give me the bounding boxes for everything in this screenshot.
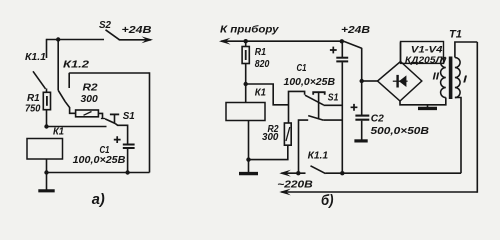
contact S1 fixed tick (101, 118, 105, 120)
node C1 top junction b (340, 39, 344, 43)
pushbutton S1 actuator a (110, 114, 119, 123)
svg-text:820: 820 (255, 59, 270, 70)
svg-text:300: 300 (262, 132, 279, 143)
svg-text:К1: К1 (53, 127, 64, 138)
svg-text:К1: К1 (255, 87, 266, 98)
svg-text:С1: С1 (297, 63, 307, 74)
relay K1 coil a (27, 139, 63, 160)
switch S2 lever (106, 30, 120, 40)
pushbutton S1 actuator b (313, 92, 325, 118)
svg-text:S1: S1 (123, 111, 135, 122)
node R1/K1/S1 junction (44, 124, 48, 128)
plus sign C1 a (114, 136, 121, 143)
node C1 bottom junction a (125, 170, 129, 174)
capacitor C2 (354, 116, 369, 141)
bridge rectifier V1-V4 diamond (378, 62, 422, 102)
resistor R1 750 (43, 92, 50, 109)
label box V1-V4 KD205L (401, 42, 444, 64)
resistor R2 300 a (76, 110, 99, 117)
node bridge left junction (360, 79, 364, 83)
ground bridge/winding (418, 105, 437, 109)
wire K1.2 fixed contact (68, 73, 70, 88)
wire K1.2 to R2 (65, 102, 75, 114)
wire 220V rail right part (326, 172, 462, 174)
wire bridge bottom to ground (400, 101, 428, 105)
svg-text:100,0×25В: 100,0×25В (73, 154, 126, 166)
svg-text:С2: С2 (371, 113, 384, 124)
ground a (38, 173, 54, 191)
wire R1 to K1 coil (46, 110, 48, 127)
wire K1.1 upper contact (46, 39, 48, 58)
wire K1 bottom to R2 bottom (249, 145, 288, 159)
wire S1 to C1 (115, 124, 127, 145)
wire K1.1 to R1 (46, 89, 48, 93)
node R1 bottom junction b (244, 82, 248, 86)
svg-text:S1: S1 (328, 92, 339, 103)
wire winding I bottom to rail (455, 98, 461, 174)
node S1 lower junction rail (296, 171, 300, 175)
relay K1 coil b (226, 103, 265, 121)
transformer T1 core (449, 57, 453, 100)
wire C2 top (361, 48, 363, 115)
wire K1 coil bottom b (248, 121, 250, 160)
wire +24V to R1 b (245, 41, 247, 46)
wire 220V upper rail arrow (279, 170, 305, 177)
resistor R1 820 (242, 47, 249, 64)
switch S1 lever a (105, 119, 115, 124)
wire S1 upper out (324, 104, 343, 106)
wire top-right rail a (69, 72, 149, 74)
svg-text:R2: R2 (83, 82, 98, 93)
transformer T1 winding II (441, 58, 446, 98)
svg-text:500,0×50В: 500,0×50В (371, 126, 430, 137)
svg-text:750: 750 (25, 103, 41, 114)
svg-text:~220В: ~220В (277, 179, 313, 190)
wire to bridge left (362, 80, 378, 82)
resistor R2 300 b (284, 123, 291, 145)
wire S1 lower out (323, 119, 342, 121)
wire winding II bottom to ground (428, 98, 446, 105)
svg-text:К прибору: К прибору (220, 24, 279, 36)
plus sign C1 b (330, 47, 337, 54)
plus sign C2 (351, 104, 358, 111)
svg-text:б): б) (321, 192, 334, 209)
wire +24V arrow a (119, 36, 153, 43)
wire K1 coil to bottom (46, 159, 48, 173)
wire 220V lower rail arrow (279, 189, 477, 196)
wire S1 upper contact feed (289, 91, 305, 123)
svg-text:КД205Л: КД205Л (405, 55, 444, 65)
svg-text:+24В: +24В (122, 25, 153, 36)
wire right rail a (149, 72, 151, 172)
svg-text:R1: R1 (255, 47, 266, 58)
node K1 bottom junction b (246, 157, 250, 161)
wire R2 to S1 contact (98, 113, 102, 118)
ground b K1 (239, 160, 258, 174)
svg-text:Т1: Т1 (449, 29, 462, 41)
wire top rail step to C2 (342, 41, 362, 48)
svg-text:V1-V4: V1-V4 (411, 44, 443, 54)
wire right rail b (476, 42, 478, 193)
wire top rail a (47, 39, 105, 41)
wire winding I top to right rail (455, 42, 477, 58)
wire K1.2 vertical (57, 40, 59, 91)
switch S1 lever b (305, 95, 324, 105)
contact K1.1 lever b (311, 166, 326, 174)
node top rail junction (56, 37, 60, 41)
svg-text:а): а) (92, 191, 105, 208)
node C1 bottom rail junction (340, 171, 344, 175)
wire winding II top to box (444, 58, 446, 64)
svg-text:R1: R1 (27, 93, 40, 104)
contact K1.2 lever (58, 90, 65, 101)
svg-text:300: 300 (81, 94, 98, 105)
svg-text:К1.1: К1.1 (25, 52, 46, 63)
svg-text:К1.1: К1.1 (308, 150, 329, 161)
wire K1 node to S1 (47, 126, 107, 128)
diode symbol inside bridge (393, 75, 408, 88)
svg-text:I: I (463, 75, 468, 86)
svg-text:II: II (433, 71, 441, 82)
svg-text:+24В: +24В (341, 25, 371, 36)
node R1 top junction b (244, 39, 248, 43)
switch S1 lower lever b (308, 116, 323, 121)
wire 'K priboru' arrow (219, 38, 344, 45)
svg-text:100,0×25В: 100,0×25В (284, 77, 336, 88)
node bottom left junction a (44, 170, 48, 174)
wire R1 to K1 b (245, 64, 247, 103)
capacitor C1 a (123, 145, 135, 173)
capacitor C1 b (336, 41, 348, 173)
wire bottom rail a (47, 172, 150, 174)
wire R1 node to S1 upper (246, 84, 289, 105)
contact K1.1 lever (33, 71, 46, 89)
transformer T1 winding I (455, 58, 460, 98)
svg-text:S2: S2 (99, 20, 111, 31)
svg-text:К1.2: К1.2 (63, 59, 89, 70)
wire bridge top to box (400, 42, 402, 61)
wire S1 lower contact feed (299, 120, 309, 173)
